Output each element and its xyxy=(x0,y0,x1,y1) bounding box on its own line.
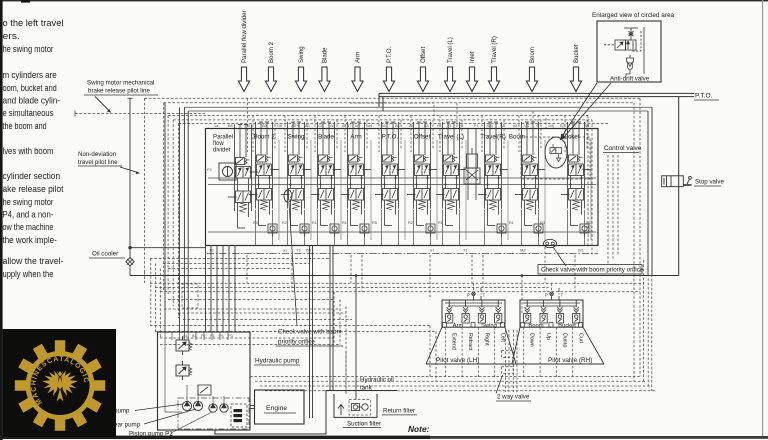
wire: section boundary risers xyxy=(279,140,591,240)
valve: inlet section xyxy=(464,129,480,201)
leader: enlarged view to circled bucket section xyxy=(561,83,612,140)
svg-text:Extend: Extend xyxy=(451,333,457,350)
valve section: P.T.O. spool xyxy=(375,122,405,226)
svg-text:a5P0: a5P0 xyxy=(291,124,300,128)
svg-text:B8: B8 xyxy=(228,124,233,128)
svg-text:Check valve with boom priority: Check valve with boom priority orifice xyxy=(541,266,644,273)
svg-text:R1: R1 xyxy=(312,221,317,225)
svg-text:P1: P1 xyxy=(474,124,479,128)
svg-text:pump: pump xyxy=(114,408,130,415)
valve section: Offset spool xyxy=(407,122,437,226)
svg-text:divider: divider xyxy=(213,148,231,154)
svg-text:Travel (L): Travel (L) xyxy=(447,37,454,63)
svg-text:brake release pilot line: brake release pilot line xyxy=(88,88,150,95)
arrow: Swing xyxy=(295,46,306,91)
svg-text:e simultaneous: e simultaneous xyxy=(3,108,54,118)
label: swing motor mechanical brake release pilot line xyxy=(84,80,158,113)
svg-text:Inlet: Inlet xyxy=(469,51,476,63)
wire: oil cooler line xyxy=(128,98,679,275)
svg-text:T: T xyxy=(483,293,486,298)
svg-text:o the left travel: o the left travel xyxy=(3,18,64,28)
svg-text:R5: R5 xyxy=(372,221,377,225)
component: hydraulic oil tank (open top) xyxy=(334,394,377,417)
svg-text:Boom: Boom xyxy=(529,47,536,63)
svg-text:cylinder section: cylinder section xyxy=(3,171,61,181)
svg-text:A1: A1 xyxy=(183,334,188,338)
svg-text:Blade: Blade xyxy=(322,47,329,63)
wire: pump internal lines xyxy=(165,332,228,412)
svg-text:upply when the: upply when the xyxy=(3,269,54,279)
valve section: Travel(R) spool xyxy=(478,122,508,226)
wire: internal feed galleries xyxy=(208,178,596,232)
svg-text:Control valve: Control valve xyxy=(604,145,642,152)
svg-text:(3: (3 xyxy=(448,124,451,128)
svg-text:Offset: Offset xyxy=(420,47,427,63)
component: engine xyxy=(255,390,305,424)
svg-text:Curl: Curl xyxy=(578,333,584,343)
wire: pilot loop lines around control valve xyxy=(144,98,652,381)
svg-text:t59: t59 xyxy=(306,249,311,253)
svg-text:A0: A0 xyxy=(262,124,267,128)
pump: gear pump P3 xyxy=(209,404,217,412)
arrow: Parallel flow divider xyxy=(238,10,249,91)
svg-text:B4: B4 xyxy=(424,124,429,128)
svg-text:(B1: (B1 xyxy=(578,249,584,253)
svg-text:P4, and a non-: P4, and a non- xyxy=(3,210,54,220)
arrow: Travel (R) xyxy=(488,36,499,91)
svg-text:Pilot valve (LH): Pilot valve (LH) xyxy=(436,357,479,364)
label: piston pump (clipped) xyxy=(114,404,183,415)
svg-text:A8: A8 xyxy=(330,124,335,128)
valve: stop valve xyxy=(662,176,725,187)
svg-text:Travel (R): Travel (R) xyxy=(491,36,498,63)
svg-text:R1: R1 xyxy=(342,221,347,225)
svg-text:G9|: G9| xyxy=(548,124,554,128)
svg-text:A7B7: A7B7 xyxy=(342,124,351,128)
wire: P.T.O. line down to stop valve xyxy=(678,97,680,276)
pump: piston pump P2 xyxy=(193,401,202,410)
svg-text:P: P xyxy=(545,293,548,298)
svg-text:(2: (2 xyxy=(460,124,463,128)
valve: pilot valve RH xyxy=(512,288,604,377)
junction dots on galleries xyxy=(258,177,583,186)
svg-text:Boom 2: Boom 2 xyxy=(268,41,275,63)
svg-text:Arm: Arm xyxy=(355,52,362,63)
svg-text:A4: A4 xyxy=(409,124,414,128)
svg-text:a6: a6 xyxy=(368,124,372,128)
paragraph: left clipped text column xyxy=(3,18,64,279)
wire: swing motor brake release pilot line (dashed) xyxy=(75,111,205,117)
svg-text:Hydraulic pump: Hydraulic pump xyxy=(255,358,300,365)
svg-text:R3: R3 xyxy=(540,221,545,225)
svg-text:R1: R1 xyxy=(438,221,443,225)
valve: pump relief valve 2 xyxy=(176,361,192,380)
svg-text:P.T.O.: P.T.O. xyxy=(382,134,399,141)
wire: section drain lines xyxy=(256,210,585,246)
wire: pump pressure lines (left side solids) xyxy=(165,103,652,332)
valve: parallel flow divider spool xyxy=(228,125,258,229)
svg-text:Down: Down xyxy=(529,333,535,347)
label: non-deviation travel pilot line xyxy=(78,151,140,174)
wire: tank return centerline T3 xyxy=(207,253,598,255)
component: pilot pressure reducer xyxy=(198,385,211,395)
arrow: P.T.O. xyxy=(383,47,394,92)
svg-text:lves with boom: lves with boom xyxy=(3,146,54,156)
svg-text:R2: R2 xyxy=(282,221,287,225)
svg-text:P3: P3 xyxy=(207,168,212,172)
svg-text:B3): B3) xyxy=(487,124,494,128)
valve: anti-drift valve (in circuit) xyxy=(550,144,562,162)
boundary: bucket section dashed box xyxy=(521,137,590,179)
svg-text:2 way valve: 2 way valve xyxy=(497,394,530,401)
wire: pump drive shaft xyxy=(250,406,255,409)
svg-text:P.T.O.: P.T.O. xyxy=(695,93,713,100)
valve: pilot valve LH xyxy=(426,288,516,377)
border: page top edge xyxy=(0,0,768,1)
valve: pump relief valve 1 xyxy=(176,336,192,355)
svg-text:travel pilot line: travel pilot line xyxy=(78,159,118,166)
arrow: Inlet xyxy=(466,51,477,91)
border: page bottom bar xyxy=(0,436,768,439)
svg-text:Swing: Swing xyxy=(298,46,305,63)
svg-text:Right: Right xyxy=(483,333,489,346)
valve section: Blade spool xyxy=(311,122,341,226)
svg-text:oom, bucket and: oom, bucket and xyxy=(3,83,57,93)
svg-text:B6: B6 xyxy=(381,124,386,128)
wire: pump supply lines control valve to pumps xyxy=(206,246,334,419)
arrow: Offset xyxy=(417,47,428,92)
border: page right edge line xyxy=(762,0,763,437)
svg-text:Travel (L): Travel (L) xyxy=(438,134,464,141)
junction dots on return line xyxy=(355,274,358,277)
svg-text:Boom: Boom xyxy=(528,323,543,329)
labels: section check refs xyxy=(253,221,591,225)
valve section: Bucket spool xyxy=(561,122,591,226)
svg-text:A3: A3 xyxy=(305,124,310,128)
arrow: Arm xyxy=(352,52,363,92)
boundary: pump group dash-dot box xyxy=(178,398,249,429)
valve section: Arm spool xyxy=(341,122,371,226)
svg-text:Dump: Dump xyxy=(561,333,567,347)
svg-text:Blade: Blade xyxy=(318,134,334,141)
circle: anti-drift valve (bucket section) xyxy=(545,137,567,168)
valve section: Boom spool xyxy=(509,122,545,226)
svg-text:F2: F2 xyxy=(437,124,441,128)
svg-text:R2: R2 xyxy=(408,221,413,225)
valve section: parallel flow divider xyxy=(207,135,236,181)
pump: piston pump P1 xyxy=(182,401,191,410)
svg-text:and blade cylin-: and blade cylin- xyxy=(3,96,61,106)
svg-text:Bucket: Bucket xyxy=(573,44,580,63)
svg-text:tA2: tA2 xyxy=(520,249,526,253)
svg-text:P2: P2 xyxy=(201,334,206,338)
svg-text:B7: B7 xyxy=(572,124,577,128)
svg-text:Swing: Swing xyxy=(288,134,305,141)
component: oil cooler diamond xyxy=(126,258,134,266)
svg-text:ta7: ta7 xyxy=(355,124,360,128)
svg-text:Stop valve: Stop valve xyxy=(695,179,724,186)
svg-text:A6: A6 xyxy=(395,124,400,128)
label: 2 way valve xyxy=(496,375,531,401)
svg-text:tank: tank xyxy=(360,384,373,391)
labels: port codes above control valve xyxy=(214,124,590,128)
component: suction strainer arrow xyxy=(338,405,344,416)
svg-text:B|1: B|1 xyxy=(560,124,566,128)
svg-text:Hydraulic oil: Hydraulic oil xyxy=(360,377,394,384)
label: check valve with boom priority orifice (right) xyxy=(538,247,644,274)
svg-text:Up: Up xyxy=(545,333,551,340)
detail box: enlarged view xyxy=(597,21,661,82)
arrow: Boom xyxy=(526,47,537,91)
svg-text:A|1: A|1 xyxy=(584,124,590,128)
label: check valve with boom priority orifice (left) xyxy=(276,203,343,346)
wire: pilot stubs into sections xyxy=(248,98,588,152)
circle: check valve with boom priority orifice (boom section, lower) xyxy=(544,239,557,247)
decorative clipped glyph top-left xyxy=(21,0,30,3)
svg-text:P.T.O.: P.T.O. xyxy=(386,47,393,63)
svg-text:Swing motor mechanical: Swing motor mechanical xyxy=(87,80,154,87)
arrow: Bucket xyxy=(570,44,581,91)
valve: 2 way valve xyxy=(502,330,517,392)
svg-text:Suction filter: Suction filter xyxy=(347,420,381,427)
svg-text:R0: R0 xyxy=(253,221,258,225)
svg-text:A3: A3 xyxy=(500,124,505,128)
component: return filter in tank xyxy=(349,400,371,416)
svg-text:allow the travel-: allow the travel- xyxy=(3,256,64,266)
svg-text:flow: flow xyxy=(213,141,224,147)
svg-text:the boom and: the boom and xyxy=(3,121,47,131)
svg-text:Non-deviation: Non-deviation xyxy=(78,151,117,158)
svg-text:Piston pump P2: Piston pump P2 xyxy=(129,430,173,437)
svg-text:Oil cooler: Oil cooler xyxy=(92,251,118,258)
valve section: Boom 2 spool xyxy=(249,122,279,226)
svg-text:R1: R1 xyxy=(509,221,514,225)
wire: P.T.O. double line top right xyxy=(379,93,694,111)
boundary: small dashed box above pump xyxy=(182,284,198,308)
svg-text:ers.: ers. xyxy=(3,31,20,41)
svg-text:T1: T1 xyxy=(463,249,467,253)
circle: check valve with boom priority orifice (swing section) xyxy=(284,190,292,202)
svg-text:t5: t5 xyxy=(247,124,250,128)
svg-text:P: P xyxy=(467,293,470,298)
svg-text:Bucket: Bucket xyxy=(558,323,576,329)
svg-text:Travel(R): Travel(R) xyxy=(480,134,506,141)
wire: suction line xyxy=(215,391,397,435)
svg-text:R1: R1 xyxy=(586,221,591,225)
svg-text:Return filter: Return filter xyxy=(383,408,415,415)
svg-text:tA2: tA2 xyxy=(524,124,530,128)
svg-text:he swing motor: he swing motor xyxy=(3,197,54,207)
border: page left edge bar xyxy=(0,0,3,440)
svg-text:he swing motor: he swing motor xyxy=(3,44,54,54)
svg-text:ake release pilot: ake release pilot xyxy=(3,184,64,194)
arrow: Boom 2 xyxy=(265,41,276,91)
label: hydraulic oil tank xyxy=(360,377,394,392)
svg-text:P3: P3 xyxy=(228,334,233,338)
component: pump manifold block xyxy=(231,404,247,427)
pump: gear pump P4 xyxy=(220,404,228,412)
svg-text:Note:: Note: xyxy=(408,424,430,434)
svg-text:Offset: Offset xyxy=(414,134,431,141)
svg-text:/3: /3 xyxy=(536,124,539,128)
svg-text:Engine: Engine xyxy=(266,405,287,412)
svg-text:a7: a7 xyxy=(430,249,434,253)
wire: return line into tank xyxy=(355,276,357,400)
valve section: Travel (L) spool xyxy=(436,122,466,226)
valve: section check valves (bottom) xyxy=(268,224,277,237)
wire: pilot line network (middle dashed bus) xyxy=(144,247,654,394)
svg-text:Retract: Retract xyxy=(467,333,473,351)
control valve: outer body xyxy=(206,129,599,246)
valve: anti-drift valve detail xyxy=(604,27,644,76)
svg-text:a2: a2 xyxy=(513,124,517,128)
svg-text:ow the machine: ow the machine xyxy=(3,222,54,232)
labels: pump ports xyxy=(183,334,233,338)
svg-text:the work imple-: the work imple- xyxy=(3,235,57,245)
svg-text:Boom 2: Boom 2 xyxy=(253,134,275,141)
svg-text:m cylinders are: m cylinders are xyxy=(3,70,57,80)
svg-text:a1: a1 xyxy=(283,249,287,253)
label: piston pump P2 xyxy=(129,412,212,437)
svg-text:Enlarged view of circled area: Enlarged view of circled area xyxy=(592,12,675,19)
svg-text:T: T xyxy=(561,293,564,298)
label: gear pump (clipped) xyxy=(114,409,196,429)
arrow: Travel (L) xyxy=(444,37,455,91)
valve section: Swing spool xyxy=(281,122,311,226)
svg-text:Parallel: Parallel xyxy=(213,135,233,141)
svg-text:Left: Left xyxy=(500,333,506,342)
svg-text:G8: G8 xyxy=(318,124,323,128)
logo: black panel xyxy=(3,329,116,437)
wire: drain into tank (dashed) xyxy=(345,352,347,394)
svg-text:Anti-drift valve: Anti-drift valve xyxy=(610,76,650,83)
svg-text:Parallel flow divider: Parallel flow divider xyxy=(241,10,248,63)
svg-text:Arm: Arm xyxy=(350,134,361,141)
component: hydraulic pump assembly box xyxy=(158,332,251,430)
svg-text:T3: T3 xyxy=(296,249,300,253)
arrow: Blade xyxy=(319,47,330,92)
svg-text:G8: G8 xyxy=(277,124,282,128)
svg-text:Pilot valve (RH): Pilot valve (RH) xyxy=(548,357,592,364)
logo: gear emblem xyxy=(15,340,105,430)
svg-text:ear pump: ear pump xyxy=(114,422,141,429)
